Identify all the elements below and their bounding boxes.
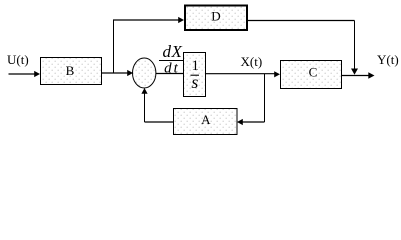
svg-text:D: D <box>211 9 220 24</box>
svg-text:dX: dX <box>162 42 182 61</box>
svg-text:U(t): U(t) <box>7 52 29 67</box>
wire input arrow into B <box>9 71 41 77</box>
label dX/dt <box>159 42 183 77</box>
wire A output left and up into summing junction <box>141 88 173 122</box>
block D <box>185 6 247 31</box>
svg-text:Y(t): Y(t) <box>377 52 399 67</box>
wire B output to summing junction <box>102 70 134 76</box>
svg-text:X(t): X(t) <box>241 54 263 69</box>
wire feedback down and left into A <box>237 74 265 125</box>
svg-text:dt: dt <box>164 61 180 77</box>
wire C output arrow to Y <box>342 72 375 78</box>
wire top rail arrow into D <box>113 17 184 23</box>
block B <box>41 58 102 85</box>
svg-text:A: A <box>201 112 211 127</box>
wire integrator output to C <box>206 71 281 77</box>
wire branch up to top rail <box>113 20 115 73</box>
summing junction <box>133 58 156 88</box>
svg-text:C: C <box>309 65 318 80</box>
wire D output to right then down into output line <box>248 21 358 75</box>
block C <box>281 61 342 89</box>
block 1/s integrator <box>184 53 206 97</box>
svg-text:s: s <box>191 72 198 92</box>
block A <box>174 109 238 135</box>
svg-text:B: B <box>66 63 75 78</box>
wire summing junction to integrator <box>156 73 184 75</box>
